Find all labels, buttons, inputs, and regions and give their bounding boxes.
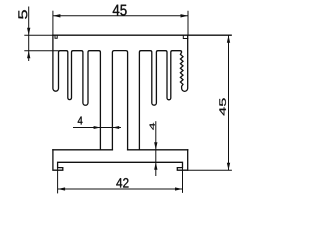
wire: base top surface right segment (128, 149, 188, 151)
node right-fins: serpentine outline of right fin field (mirror) with serrated inner edge (139, 35, 187, 150)
arrowhead center-4 right (112, 126, 119, 129)
label 4 right-center (rotated) (150, 123, 155, 130)
arrowhead 5 down (27, 28, 30, 36)
wire: bottom dimension line 42 (58, 188, 183, 190)
wire: right dimension line 45 vertical (228, 35, 230, 170)
arrowhead small-4 down (154, 142, 157, 150)
node right-notch: small step under top-right corner (183, 35, 187, 38)
arrowhead center-4 left (94, 126, 101, 129)
wire: left dim extension upper (24, 34, 53, 36)
wire: bottom dim right extension (182, 168, 184, 193)
wire: top dimension right extension (187, 11, 189, 36)
wire: bottom dim left extension (57, 168, 59, 194)
arrowhead right-45 down (227, 163, 230, 171)
node left-notch: small step under top-left corner (55, 35, 57, 38)
arrowhead right-45 up (227, 35, 230, 43)
arrowhead 5 up (27, 51, 30, 59)
arrowhead 42 left (58, 187, 66, 190)
label 45 right (rotated) (219, 98, 226, 115)
label 5 left (rotated) (18, 10, 27, 19)
node base: bottom plate with feet and clip-slot pockets (53, 150, 188, 170)
wire: base bottom right extension line (188, 169, 232, 171)
wire: right-center dimension line 4 vertical (155, 121, 157, 176)
wire: heatsink top surface + right extension line (53, 34, 231, 36)
arrowhead top-45 right (181, 14, 189, 17)
arrowhead 42 right (175, 187, 183, 190)
arrowhead small-4 up (154, 162, 157, 170)
wire: left dim extension lower (24, 50, 58, 52)
wire: center dimension line 4 (73, 127, 121, 129)
label 45 top (113, 5, 127, 16)
wire: left dimension line 5 (28, 7, 30, 62)
node left-fins: serpentine outline of left fin field (fins F1,F2,F3 with rounded tips, slots S1,S2,S3) (53, 35, 101, 150)
wire: top dimension line 45 (53, 15, 188, 17)
wire: base top surface left segment (under hanging fins, also trench floor) (53, 149, 113, 151)
arrowhead top-45 left (53, 14, 61, 17)
node center-column: central stem joining plate and base (112, 51, 127, 150)
wire: top dimension left extension (52, 11, 54, 36)
label 42 bottom (116, 178, 128, 187)
label 4 center (78, 117, 83, 125)
